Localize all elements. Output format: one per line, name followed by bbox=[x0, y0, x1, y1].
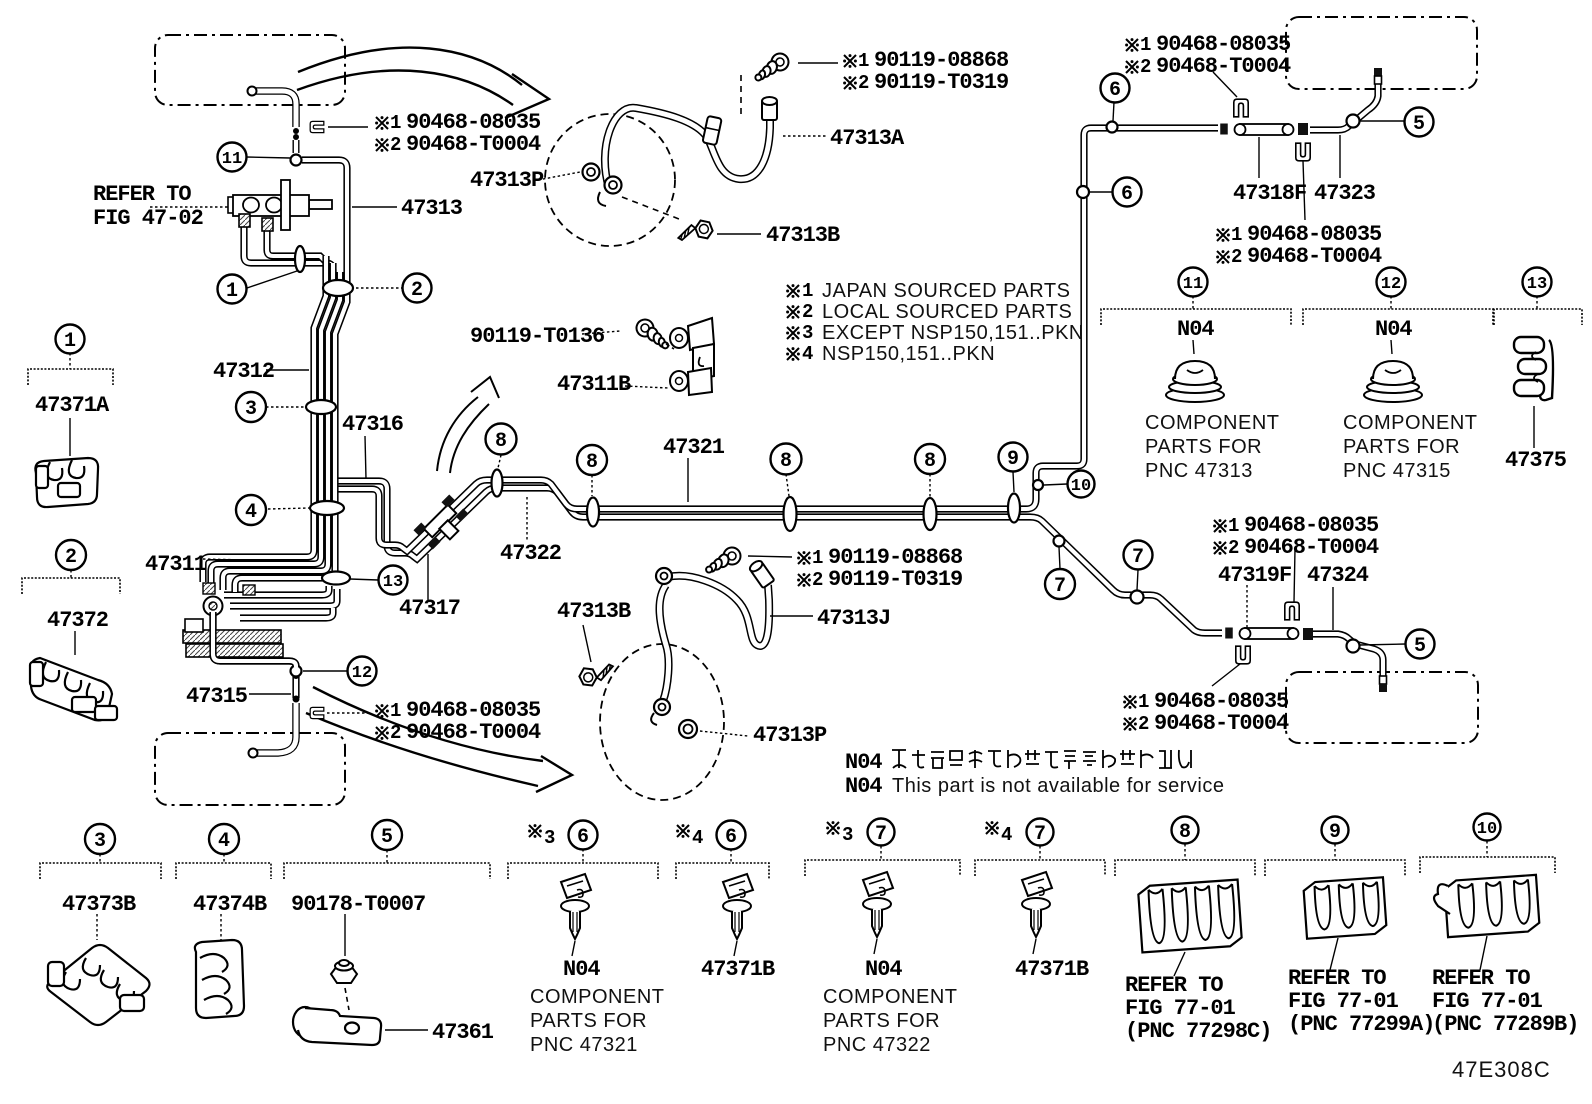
svg-text:47372: 47372 bbox=[47, 608, 108, 633]
svg-text:PNC 47313: PNC 47313 bbox=[1145, 460, 1253, 482]
svg-text:8: 8 bbox=[586, 451, 598, 474]
svg-text:JAPAN SOURCED PARTS: JAPAN SOURCED PARTS bbox=[822, 280, 1070, 302]
svg-text:47371B: 47371B bbox=[701, 957, 775, 982]
svg-text:6: 6 bbox=[725, 826, 737, 849]
svg-text:11: 11 bbox=[222, 150, 242, 169]
svg-text:10: 10 bbox=[1071, 477, 1091, 496]
svg-text:N04: N04 bbox=[865, 957, 902, 982]
svg-text:47313B: 47313B bbox=[557, 599, 631, 624]
svg-text:4: 4 bbox=[245, 501, 257, 524]
svg-text:7: 7 bbox=[875, 823, 887, 846]
svg-text:10: 10 bbox=[1477, 820, 1497, 839]
svg-text:2: 2 bbox=[1138, 713, 1149, 735]
svg-text:47373B: 47373B bbox=[62, 892, 136, 917]
svg-text:5: 5 bbox=[381, 826, 393, 849]
svg-text:47317: 47317 bbox=[399, 596, 460, 621]
svg-text:90468-T0004: 90468-T0004 bbox=[1244, 535, 1379, 560]
svg-text:FIG 77-01: FIG 77-01 bbox=[1288, 989, 1399, 1014]
svg-text:REFER TO: REFER TO bbox=[1432, 966, 1530, 991]
svg-text:90468-T0004: 90468-T0004 bbox=[1156, 54, 1291, 79]
svg-text:PNC 47322: PNC 47322 bbox=[823, 1034, 931, 1056]
svg-text:N04: N04 bbox=[845, 774, 882, 799]
svg-text:FIG 77-01: FIG 77-01 bbox=[1125, 996, 1236, 1021]
svg-text:47322: 47322 bbox=[500, 541, 561, 566]
svg-text:1: 1 bbox=[802, 280, 813, 302]
svg-text:13: 13 bbox=[1527, 275, 1547, 294]
svg-text:5: 5 bbox=[1413, 113, 1425, 136]
svg-text:47311B: 47311B bbox=[557, 372, 631, 397]
svg-text:8: 8 bbox=[780, 450, 792, 473]
svg-text:1: 1 bbox=[1138, 691, 1149, 713]
svg-text:47313B: 47313B bbox=[766, 223, 840, 248]
svg-text:2: 2 bbox=[1140, 56, 1151, 78]
svg-text:47324: 47324 bbox=[1307, 563, 1369, 588]
svg-text:12: 12 bbox=[352, 664, 372, 683]
svg-text:7: 7 bbox=[1132, 546, 1144, 569]
svg-text:47321: 47321 bbox=[663, 435, 725, 460]
svg-text:6: 6 bbox=[1109, 79, 1121, 102]
svg-text:47371B: 47371B bbox=[1015, 957, 1089, 982]
svg-text:47313J: 47313J bbox=[817, 606, 890, 631]
svg-text:2: 2 bbox=[812, 569, 823, 591]
svg-text:90468-T0004: 90468-T0004 bbox=[1154, 711, 1289, 736]
svg-text:3: 3 bbox=[94, 830, 106, 853]
svg-text:3: 3 bbox=[544, 827, 555, 849]
svg-text:1: 1 bbox=[812, 547, 823, 569]
svg-text:N04: N04 bbox=[1177, 317, 1214, 342]
svg-text:1: 1 bbox=[1231, 224, 1242, 246]
svg-text:47313: 47313 bbox=[401, 196, 463, 221]
svg-text:NSP150,151..PKN: NSP150,151..PKN bbox=[822, 343, 995, 365]
svg-text:N04: N04 bbox=[845, 750, 882, 775]
svg-text:6: 6 bbox=[1121, 183, 1133, 206]
svg-text:9: 9 bbox=[1329, 821, 1341, 844]
svg-text:8: 8 bbox=[495, 430, 507, 453]
svg-text:8: 8 bbox=[924, 450, 936, 473]
svg-text:2: 2 bbox=[1228, 537, 1239, 559]
svg-text:This part is not available for: This part is not available for service bbox=[892, 775, 1224, 797]
svg-text:90119-T0136: 90119-T0136 bbox=[470, 324, 604, 349]
svg-text:4: 4 bbox=[218, 830, 230, 853]
svg-text:PNC 47321: PNC 47321 bbox=[530, 1034, 638, 1056]
svg-text:47313P: 47313P bbox=[753, 723, 827, 748]
svg-text:1: 1 bbox=[226, 280, 238, 303]
svg-text:1: 1 bbox=[64, 330, 76, 353]
svg-text:2: 2 bbox=[858, 72, 869, 94]
svg-text:(PNC 77299A): (PNC 77299A) bbox=[1288, 1012, 1434, 1037]
svg-text:LOCAL SOURCED PARTS: LOCAL SOURCED PARTS bbox=[822, 301, 1072, 323]
svg-text:4: 4 bbox=[1001, 824, 1012, 846]
svg-text:47311: 47311 bbox=[145, 552, 207, 577]
svg-text:9: 9 bbox=[1007, 448, 1019, 471]
svg-text:90119-T0319: 90119-T0319 bbox=[874, 70, 1008, 95]
svg-text:REFER TO: REFER TO bbox=[1125, 973, 1223, 998]
svg-text:1: 1 bbox=[390, 112, 401, 134]
svg-text:N04: N04 bbox=[1375, 317, 1412, 342]
svg-text:47E308C: 47E308C bbox=[1452, 1057, 1551, 1082]
svg-text:47361: 47361 bbox=[432, 1020, 494, 1045]
svg-text:6: 6 bbox=[577, 826, 589, 849]
svg-text:COMPONENT: COMPONENT bbox=[823, 986, 958, 1008]
svg-text:7: 7 bbox=[1034, 823, 1046, 846]
svg-text:FIG 47-02: FIG 47-02 bbox=[93, 206, 203, 231]
svg-text:90178-T0007: 90178-T0007 bbox=[291, 892, 425, 917]
svg-text:90468-T0004: 90468-T0004 bbox=[406, 720, 541, 745]
svg-text:PARTS FOR: PARTS FOR bbox=[530, 1010, 647, 1032]
svg-text:3: 3 bbox=[802, 322, 813, 344]
svg-text:7: 7 bbox=[1054, 575, 1066, 598]
svg-text:2: 2 bbox=[65, 546, 77, 569]
svg-text:47316: 47316 bbox=[342, 412, 403, 437]
svg-text:PARTS FOR: PARTS FOR bbox=[1145, 436, 1262, 458]
svg-text:47313P: 47313P bbox=[470, 168, 544, 193]
svg-text:COMPONENT: COMPONENT bbox=[1343, 412, 1478, 434]
svg-text:2: 2 bbox=[1231, 246, 1242, 268]
svg-text:(PNC 77298C): (PNC 77298C) bbox=[1125, 1019, 1271, 1044]
svg-text:1: 1 bbox=[1228, 515, 1239, 537]
svg-text:1: 1 bbox=[390, 700, 401, 722]
svg-text:47319F: 47319F bbox=[1218, 563, 1291, 588]
svg-text:(PNC 77289B): (PNC 77289B) bbox=[1432, 1012, 1578, 1037]
svg-text:47323: 47323 bbox=[1314, 181, 1376, 206]
svg-text:FIG 77-01: FIG 77-01 bbox=[1432, 989, 1543, 1014]
svg-text:12: 12 bbox=[1381, 275, 1401, 294]
svg-text:PARTS FOR: PARTS FOR bbox=[1343, 436, 1460, 458]
svg-text:90468-T0004: 90468-T0004 bbox=[1247, 244, 1382, 269]
svg-text:47315: 47315 bbox=[186, 684, 248, 709]
svg-text:PARTS FOR: PARTS FOR bbox=[823, 1010, 940, 1032]
svg-text:5: 5 bbox=[1414, 635, 1426, 658]
svg-text:COMPONENT: COMPONENT bbox=[1145, 412, 1280, 434]
svg-text:REFER TO: REFER TO bbox=[1288, 966, 1386, 991]
svg-text:2: 2 bbox=[411, 279, 423, 302]
svg-text:8: 8 bbox=[1179, 821, 1191, 844]
svg-text:13: 13 bbox=[383, 573, 403, 592]
svg-text:2: 2 bbox=[390, 722, 401, 744]
svg-text:COMPONENT: COMPONENT bbox=[530, 986, 665, 1008]
svg-text:47318F: 47318F bbox=[1233, 181, 1306, 206]
svg-text:3: 3 bbox=[842, 824, 853, 846]
svg-text:EXCEPT NSP150,151..PKN: EXCEPT NSP150,151..PKN bbox=[822, 322, 1084, 344]
svg-text:11: 11 bbox=[1183, 275, 1203, 294]
svg-text:47313A: 47313A bbox=[830, 126, 905, 151]
svg-text:47375: 47375 bbox=[1505, 448, 1567, 473]
svg-text:REFER TO: REFER TO bbox=[93, 182, 191, 207]
svg-text:PNC 47315: PNC 47315 bbox=[1343, 460, 1451, 482]
svg-text:47374B: 47374B bbox=[193, 892, 267, 917]
svg-text:3: 3 bbox=[245, 398, 257, 421]
svg-text:4: 4 bbox=[692, 827, 703, 849]
svg-text:2: 2 bbox=[802, 301, 813, 323]
svg-text:1: 1 bbox=[858, 50, 869, 72]
svg-text:2: 2 bbox=[390, 134, 401, 156]
svg-text:1: 1 bbox=[1140, 34, 1151, 56]
svg-text:90119-T0319: 90119-T0319 bbox=[828, 567, 962, 592]
svg-text:47312: 47312 bbox=[213, 359, 274, 384]
svg-text:90468-T0004: 90468-T0004 bbox=[406, 132, 541, 157]
svg-text:47371A: 47371A bbox=[35, 393, 110, 418]
svg-text:4: 4 bbox=[802, 343, 813, 365]
svg-text:N04: N04 bbox=[563, 957, 600, 982]
